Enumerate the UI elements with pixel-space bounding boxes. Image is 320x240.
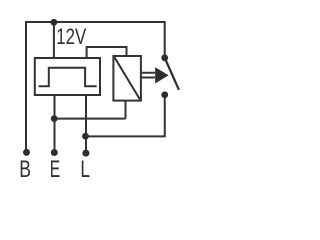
svg-text:12V: 12V xyxy=(56,24,86,49)
svg-text:L: L xyxy=(80,156,90,183)
svg-text:E: E xyxy=(50,156,60,183)
svg-text:B: B xyxy=(19,156,31,183)
